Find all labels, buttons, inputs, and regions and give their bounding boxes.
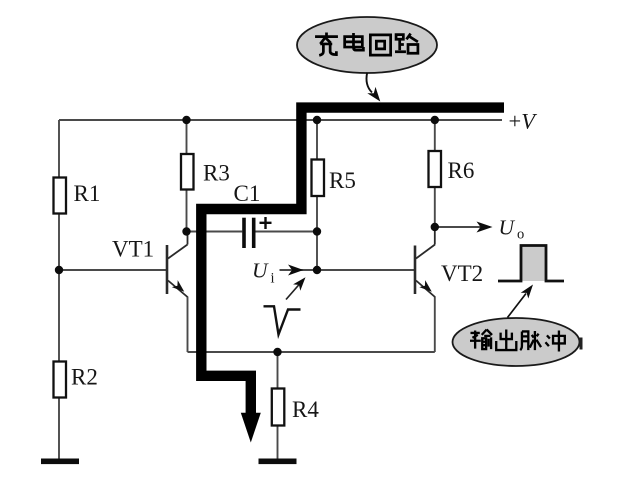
svg-text:C1: C1: [234, 181, 261, 206]
svg-text:VT2: VT2: [441, 261, 483, 286]
svg-text:o: o: [517, 227, 524, 243]
svg-text:R1: R1: [74, 181, 101, 206]
svg-text:U: U: [499, 216, 516, 240]
svg-text:VT1: VT1: [112, 237, 154, 262]
svg-text:R2: R2: [71, 365, 98, 390]
svg-text:i: i: [271, 271, 275, 287]
svg-text:R4: R4: [292, 397, 319, 422]
svg-text:R3: R3: [203, 161, 230, 186]
svg-text:+V: +V: [509, 109, 538, 134]
svg-text:R5: R5: [329, 168, 356, 193]
svg-text:U: U: [252, 259, 269, 283]
svg-text:R6: R6: [448, 158, 475, 183]
